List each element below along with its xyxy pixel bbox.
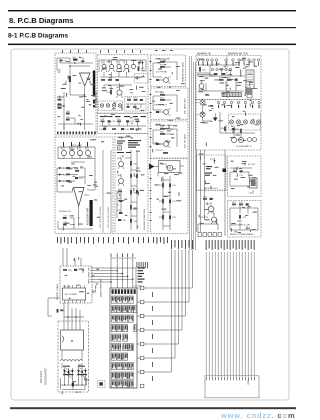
resistor R19	[117, 119, 122, 122]
transistor Q22	[160, 108, 171, 116]
capacitor C11	[116, 79, 119, 81]
capacitor C09	[66, 117, 71, 121]
wire tape left	[117, 190, 121, 218]
volume pot VR2	[69, 145, 74, 159]
key switch SW33	[128, 372, 133, 379]
svg-text:HEADPHONE JACK: HEADPHONE JACK	[182, 61, 185, 82]
svg-text:KIA6058AF AMP: KIA6058AF AMP	[86, 207, 89, 225]
wire right chain verticals	[197, 150, 226, 236]
wire pin drops CN1	[199, 62, 240, 66]
svg-text:VOL OUT (R) C56 R59: VOL OUT (R) C56 R59	[108, 206, 110, 228]
connector pads row bottom right chain	[198, 233, 221, 237]
wire trans bottom drops	[62, 350, 82, 368]
dashed sub-box speaker out	[229, 114, 261, 130]
resistor R64	[130, 205, 138, 210]
diode bridge D85-D87	[77, 367, 87, 378]
IC71 hatched	[250, 178, 258, 188]
transistor Q72	[211, 213, 217, 225]
dashed block: volume control section	[55, 137, 113, 234]
key switch SW18	[111, 334, 121, 341]
transistor Q34	[248, 138, 252, 142]
dashed block: tuner / driver section	[98, 55, 149, 114]
node dots rectifier	[64, 384, 83, 385]
capacitor C41	[169, 184, 177, 188]
wire dashed hline	[197, 190, 228, 192]
net label row left group	[57, 237, 149, 244]
key switch SW20	[111, 344, 121, 351]
dashed block: ext speaker jack section	[151, 121, 189, 158]
speaker terminal T4	[250, 120, 254, 124]
wire L drop left of power box	[48, 298, 60, 316]
key matrix top labels	[137, 262, 148, 269]
capacitor C63	[130, 219, 138, 223]
transistor Q35	[253, 138, 257, 142]
resistor R20	[136, 119, 141, 122]
dashed block: motor control column	[151, 159, 189, 234]
pin labels CN1	[198, 62, 259, 66]
capacitor C53	[63, 222, 68, 226]
capacitor C82	[72, 383, 80, 388]
wire right block rails	[199, 65, 246, 76]
transistor Q23	[160, 140, 171, 148]
dashed block: headphone jack section	[151, 55, 186, 87]
net label row mid group	[171, 240, 193, 249]
dashed block: audio amp section	[228, 201, 262, 238]
diode D05	[57, 167, 67, 170]
label key ops	[138, 267, 146, 282]
wire preamp input	[70, 162, 85, 181]
wire hp loop	[153, 62, 177, 80]
resistor R34	[221, 127, 226, 132]
capacitor C81	[74, 269, 77, 271]
deck motor box	[159, 161, 181, 173]
capacitor C18	[121, 128, 130, 131]
transistor Q52	[117, 174, 124, 186]
bottom page rule	[10, 407, 296, 409]
key switch SW35	[117, 381, 122, 388]
pin ticks motor box	[150, 178, 152, 221]
wire rectifier bottom	[61, 385, 86, 390]
IC81 block	[63, 285, 86, 303]
wire mic loop	[153, 95, 177, 112]
volume pot VR3	[77, 145, 82, 159]
connector pin row CN1	[197, 59, 259, 61]
resistor R11	[138, 67, 146, 72]
IC04 bar KIA6058	[90, 200, 93, 226]
wire tape rails	[125, 150, 137, 230]
svg-text:MIC JACK LINE: MIC JACK LINE	[184, 98, 187, 114]
pin row bottom of amp block	[57, 132, 96, 135]
key matrix grid	[111, 289, 136, 387]
wire sound output	[230, 168, 253, 194]
diode bridge D82-D84	[63, 367, 74, 379]
key switch SW22	[128, 344, 133, 351]
capacitor C65	[117, 210, 122, 214]
resistor R81	[63, 269, 73, 272]
key switch SW36	[123, 381, 128, 388]
svg-text:MAIN POWER SW: MAIN POWER SW	[100, 279, 103, 297]
resistor R72	[232, 202, 237, 205]
component value labels	[57, 57, 258, 394]
wire top rail	[60, 57, 93, 63]
text block tape ic	[128, 140, 141, 148]
resistor R18	[101, 119, 106, 122]
resistor R13	[108, 79, 112, 81]
dashed block: eq amp strip	[98, 114, 149, 134]
LED L03	[112, 104, 115, 107]
AC plug mini box	[98, 381, 106, 388]
resistor R56	[75, 168, 80, 171]
svg-text:KIA3208 EQ AMP R66: KIA3208 EQ AMP R66	[143, 208, 146, 230]
resistor R41	[159, 183, 164, 188]
capacitor C35	[232, 128, 240, 131]
key switch SW11	[117, 315, 122, 322]
svg-text:EXT SP JACK: EXT SP JACK	[184, 134, 187, 148]
transistor Q32	[231, 133, 236, 143]
key switch SW21	[123, 344, 128, 351]
key switch header contacts	[112, 289, 136, 294]
key switch SW30	[111, 372, 116, 379]
wire bottom volume block	[58, 218, 93, 229]
key switch SW08	[128, 306, 133, 313]
junction blob	[223, 169, 227, 173]
wire q06	[104, 83, 132, 90]
resistor R61	[130, 161, 138, 166]
capacitor C13	[140, 99, 143, 101]
wire sound rails	[220, 112, 255, 133]
key feed top labels	[111, 254, 134, 258]
key switch SW14	[111, 325, 116, 332]
wire rectifier rail	[61, 377, 87, 385]
resistor R32	[219, 77, 224, 80]
capacitor C32	[222, 73, 225, 75]
resistor R62	[136, 174, 138, 178]
key switch SW34	[111, 381, 116, 388]
IC31 pin hatch	[247, 72, 253, 85]
capacitor C22	[156, 111, 159, 113]
key switch SW15	[117, 325, 122, 332]
transistor Q31	[199, 80, 205, 91]
resistor R43	[159, 215, 164, 220]
key switch SW32	[123, 372, 128, 379]
matrix right pin squares	[140, 286, 144, 388]
wire collector rail	[99, 60, 146, 72]
transistor Q01	[101, 59, 107, 72]
key switch SW19	[123, 334, 128, 341]
power transformer body T81	[61, 330, 84, 350]
connector pin number row	[206, 377, 255, 380]
capacitor C43	[169, 216, 177, 220]
diode D01	[138, 60, 140, 70]
wire trans top pins	[64, 303, 84, 330]
capacitor C75	[210, 198, 213, 200]
dashed sub-box LED display	[99, 101, 123, 111]
wire ext loop	[153, 129, 177, 147]
switch SW1	[135, 75, 144, 78]
net labels under jack column	[153, 237, 168, 244]
capacitor C07	[57, 103, 63, 108]
play direction arrow	[149, 164, 155, 170]
resistor R12	[101, 79, 105, 81]
svg-text:POWER TRANS: POWER TRANS	[56, 283, 59, 300]
speaker terminal T1	[229, 120, 233, 124]
svg-text:T81 F81: T81 F81	[63, 286, 71, 288]
main bus vertical lines	[206, 252, 254, 376]
diode D06	[57, 173, 67, 176]
capacitor C54	[75, 177, 84, 180]
wire vertical chain 1	[163, 176, 170, 230]
resistor R22	[160, 65, 165, 68]
key switch SW01	[111, 296, 116, 303]
key switch SW26	[111, 363, 116, 370]
capacitor C21	[156, 79, 159, 81]
capacitor C62	[136, 190, 138, 194]
key switch SW07	[123, 306, 128, 313]
wire audio bottom	[230, 222, 258, 230]
capacitor C52	[63, 215, 68, 219]
key switch SW04	[128, 296, 133, 303]
resistor R73	[239, 202, 244, 205]
label eq row1	[100, 116, 146, 117]
diode D71	[210, 158, 216, 164]
transformer core hook	[63, 336, 64, 342]
wire feeds into power box	[63, 248, 81, 266]
resistor R42	[159, 199, 164, 204]
node dots volume	[73, 217, 79, 225]
volume pot VR1	[61, 145, 66, 159]
op-amp IC01	[80, 73, 91, 86]
capacitor C08	[66, 111, 71, 115]
key switch SW10	[111, 315, 116, 322]
capacitor C66	[118, 219, 127, 222]
speaker terminal T5	[256, 120, 260, 124]
transistor Q21	[160, 76, 171, 84]
wire key bus labels	[151, 292, 154, 381]
subsection rule	[8, 44, 296, 46]
key switch SW27	[117, 363, 122, 370]
small box S31	[247, 95, 252, 98]
svg-text:www. cndzz. com: www. cndzz. com	[220, 411, 295, 420]
LED L04	[118, 104, 121, 107]
diode D07	[57, 180, 67, 183]
diode D02	[141, 60, 143, 70]
wire mid rail right block	[199, 81, 245, 91]
key switch SW03	[123, 296, 128, 303]
transistor Q51	[117, 157, 124, 169]
connector pin row CN4	[217, 101, 260, 103]
wire audio rails	[230, 206, 258, 231]
capacitor C17	[99, 128, 106, 131]
LED L01	[100, 104, 103, 107]
op-amp IC03	[74, 188, 85, 207]
dashed block: sound output section	[228, 156, 262, 197]
svg-text:TAPE OPER SW: TAPE OPER SW	[88, 267, 91, 284]
capacitor C31	[214, 73, 217, 75]
svg-text:5-1 KEY: 5-1 KEY	[134, 286, 142, 288]
resistor R33	[227, 77, 232, 80]
wire opamp2	[57, 168, 89, 226]
resistor R26	[160, 132, 165, 135]
resistor R16	[134, 97, 139, 100]
resistor R17	[133, 106, 137, 108]
transistor Q06	[116, 85, 123, 98]
wire bundle main B	[197, 73, 216, 76]
top edge pin labels	[62, 50, 173, 54]
wire operation lines	[91, 268, 137, 282]
pin ticks hp box	[150, 61, 152, 80]
capacitor C71	[240, 170, 245, 177]
dashed sub-box auto stop	[197, 155, 227, 190]
svg-text:R55 A05 C51: R55 A05 C51	[59, 210, 72, 213]
pin ticks mic box	[150, 94, 152, 113]
svg-text:M: M	[169, 167, 171, 170]
resistor R28	[163, 152, 168, 154]
wire key feed rail	[111, 257, 136, 259]
key switch SW17	[134, 325, 137, 332]
wire bottom rail	[58, 118, 93, 130]
wire feedback loop	[70, 66, 90, 95]
resistor R63	[130, 190, 138, 195]
capacitor C64	[117, 198, 122, 202]
speaker terminal T2	[236, 120, 240, 124]
rec head symbol	[118, 145, 122, 150]
svg-text:SOUND AMP IC: SOUND AMP IC	[236, 145, 252, 148]
capacitor C06	[57, 96, 63, 101]
resistor R08	[93, 100, 95, 104]
key switch SW16	[123, 325, 128, 332]
capacitor C33	[235, 79, 238, 81]
node dots trans top	[67, 316, 76, 317]
label cluster auto stop	[205, 166, 212, 176]
net label row right group	[206, 240, 255, 250]
resistor R54	[66, 167, 70, 182]
dashed block: main board connectors	[196, 56, 261, 100]
key switch SW24	[117, 353, 122, 360]
pot top labels	[63, 142, 88, 147]
resistor R82	[57, 309, 64, 313]
capacitor C74	[239, 215, 247, 219]
diode D81	[82, 268, 84, 273]
resistor R23	[160, 93, 165, 96]
key switch SW29	[128, 363, 133, 370]
resistor R14	[107, 90, 112, 95]
key matrix outer box	[110, 288, 137, 388]
resistor R36	[240, 129, 242, 133]
svg-text:C23 R27: C23 R27	[155, 150, 164, 152]
svg-text:SP OUT: SP OUT	[248, 164, 256, 166]
key switch SW28	[123, 363, 128, 370]
transistor Q33	[238, 133, 243, 143]
resistor R05 vertical label	[66, 76, 72, 84]
svg-text:LINE IN JACK: LINE IN JACK	[154, 104, 168, 107]
power transformer primary box	[60, 266, 92, 303]
key switch SW12	[123, 315, 128, 322]
wire c mid rails	[79, 163, 95, 190]
label rows tape top	[117, 141, 131, 154]
resistor R21	[160, 60, 165, 63]
svg-text:B(MAIN) (S): B(MAIN) (S)	[197, 52, 211, 56]
key switch SW13	[128, 315, 133, 322]
dashed divider main B sections	[226, 56, 228, 100]
key switch SW31	[117, 372, 122, 379]
svg-text:8-1 P.C.B Diagrams: 8-1 P.C.B Diagrams	[8, 33, 68, 40]
svg-text:LED09: LED09	[245, 87, 252, 89]
capacitor C02	[60, 60, 69, 63]
transistor Q05	[131, 61, 135, 69]
connector CN3 striped	[222, 93, 242, 97]
label d82 d85	[63, 366, 85, 367]
schematic sheet border	[11, 49, 289, 400]
wire staircase bus to matrix	[137, 250, 193, 372]
wire box A top-left	[57, 58, 70, 70]
wire op-amp output	[78, 87, 85, 130]
key switch SW37	[128, 381, 133, 388]
speaker terminal T3	[243, 120, 247, 124]
LED L02	[106, 104, 109, 107]
dashed block: mic jack section	[151, 88, 189, 120]
capacitor C04	[72, 57, 78, 61]
main board connector box	[205, 376, 259, 398]
capacitor C14	[127, 106, 130, 108]
capacitor C42	[169, 200, 177, 204]
dashed sub-box band switch	[135, 74, 149, 84]
svg-text:8. P.C.B Diagrams: 8. P.C.B Diagrams	[9, 16, 73, 25]
key switch SW05	[111, 306, 116, 313]
wire bus verticals mid	[190, 56, 196, 250]
capacitor C15	[108, 120, 117, 123]
svg-text:3.5 PHONE: 3.5 PHONE	[156, 72, 167, 74]
resistor R67	[118, 189, 123, 192]
section title rule top	[8, 10, 296, 11]
svg-text:VOL OUT (L) C55 R58: VOL OUT (L) C55 R58	[100, 206, 102, 228]
LED09 block	[245, 89, 253, 94]
IC31 regulator	[246, 70, 254, 89]
wire row under transistors	[100, 72, 145, 77]
dashed block: main amp section	[55, 53, 96, 135]
motor M1	[167, 165, 173, 171]
wire speaker rail	[197, 103, 211, 122]
key switch SW06	[117, 306, 122, 313]
capacitor C73	[246, 203, 249, 205]
svg-text:B(MAIN) (B) T(S): B(MAIN) (B) T(S)	[228, 52, 248, 56]
IC02 power switch bar	[93, 71, 95, 97]
capacitor C16	[126, 120, 135, 123]
dashed block: tape head section	[115, 134, 148, 234]
wire eq rail	[99, 122, 146, 126]
svg-text:AC POWER: AC POWER	[65, 293, 77, 296]
power supply dashed box	[58, 321, 89, 392]
capacitor C10	[93, 105, 95, 107]
dashed block: speaker connect section	[196, 100, 261, 151]
speaker SP1	[200, 100, 205, 105]
node dots amp block	[63, 65, 85, 106]
ground sym right	[213, 113, 218, 121]
key switch SW02	[117, 296, 122, 303]
node dot trans	[71, 340, 73, 342]
svg-text:AUDIO POWER (MAIN): AUDIO POWER (MAIN)	[230, 233, 254, 236]
speaker SP2	[200, 112, 205, 117]
volume pot VR4	[85, 145, 90, 159]
transistor Q03	[116, 59, 122, 72]
key switch SW23	[111, 353, 116, 360]
transistor Q71	[206, 202, 214, 215]
capacitor C23	[155, 143, 164, 152]
svg-text:DECK: DECK	[161, 164, 168, 166]
transformer winding scallops	[60, 360, 83, 362]
pin label row CN4	[218, 105, 260, 108]
transistor Q02	[109, 59, 115, 72]
wire key feed verticals	[111, 258, 136, 288]
